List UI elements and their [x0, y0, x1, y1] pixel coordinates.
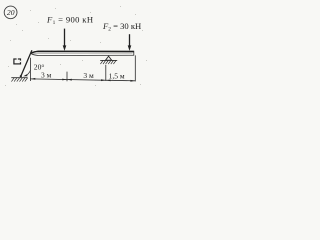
svg-text:3 м: 3 м: [41, 71, 52, 80]
background: [0, 0, 150, 90]
small rectangle symbol near rod: [14, 59, 21, 64]
left ground hatching: [11, 78, 27, 82]
beam (horizontal bar with pointed left tip): [31, 51, 134, 56]
scan speckles: [5, 6, 147, 86]
dimension line: [30, 79, 135, 81]
angle arc 20 deg: [25, 70, 31, 76]
force arrow F1: [63, 29, 67, 51]
svg-text:20: 20: [7, 8, 15, 17]
middle support extension line: [105, 65, 107, 81]
right dimension extension line: [134, 55, 136, 81]
middle ground hatching: [100, 61, 116, 65]
beam thick top edge: [31, 51, 133, 53]
middle ground line: [100, 59, 117, 61]
tick at 3m: [66, 72, 68, 82]
beam axis inner line: [32, 52, 133, 54]
left dimension extension line: [29, 58, 31, 81]
pin at rod base: [20, 75, 22, 77]
svg-text:F2 = 30 кН: F2 = 30 кН: [102, 21, 141, 33]
force arrow F2: [128, 34, 132, 51]
svg-text:3 м: 3 м: [83, 71, 94, 80]
inclined rod (left support link, 20 deg): [21, 50, 32, 76]
svg-text:1,5 м: 1,5 м: [109, 71, 125, 80]
middle roller support triangle: [106, 56, 112, 60]
problem number circle 20: [4, 6, 17, 19]
left ground line: [11, 77, 27, 79]
dimension arrowheads: [31, 78, 136, 82]
